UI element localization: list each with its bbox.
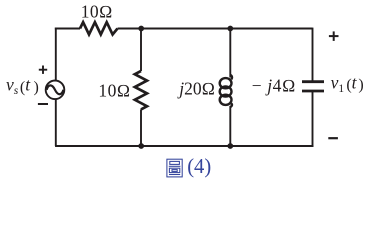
node dot bottom L1 (227, 143, 233, 149)
wire branch L1 lower (229, 106, 231, 146)
svg-text:v1(t): v1(t) (331, 73, 364, 96)
resistor R2 10ohm (shunt, vertical) (135, 71, 147, 109)
wire left upper (55, 28, 57, 80)
wire top segment to right (118, 28, 313, 30)
svg-text:vs(t): vs(t) (6, 74, 39, 97)
wire right lower (312, 91, 314, 147)
svg-text:10Ω: 10Ω (81, 1, 113, 21)
source sine wave (47, 85, 64, 94)
minus sign v1 (328, 137, 338, 139)
capacitor C1 bottom plate (302, 90, 324, 93)
inductor L1 j20ohm coil (220, 75, 232, 107)
node dot bottom R2 (138, 143, 144, 149)
caption glyph "tu" (figure) drawn (167, 159, 182, 177)
node dot top R2 (138, 26, 144, 32)
svg-text:(4): (4) (187, 156, 211, 178)
wire branch R2 upper (140, 29, 142, 72)
plus sign v1 (329, 31, 339, 41)
wire bottom (55, 145, 313, 147)
svg-text:j20Ω: j20Ω (177, 79, 215, 99)
wire right upper (312, 28, 314, 82)
svg-text:− j4Ω: − j4Ω (252, 76, 296, 96)
node dot top L1 (227, 26, 233, 32)
wire branch L1 upper (229, 29, 231, 78)
plus sign at source (39, 66, 47, 74)
wire top-left segment (55, 28, 80, 30)
capacitor C1 top plate (302, 80, 324, 83)
resistor R1 10ohm (series, top) (80, 22, 118, 34)
minus sign at source (38, 103, 48, 105)
wire branch R2 lower (140, 109, 142, 146)
source V1 vs(t) circle (46, 81, 65, 100)
wire left lower (55, 99, 57, 146)
svg-text:10Ω: 10Ω (98, 80, 130, 100)
